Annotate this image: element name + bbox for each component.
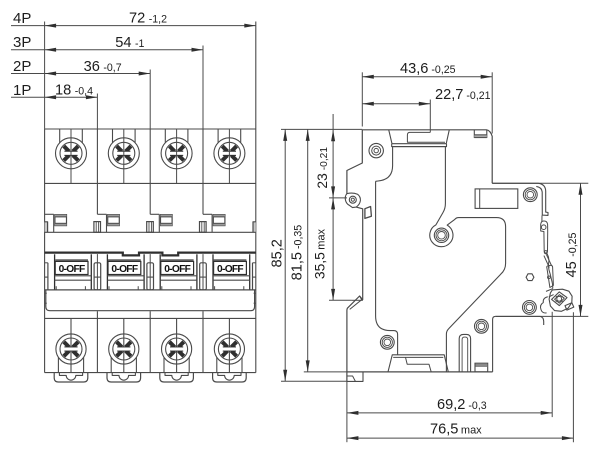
bottom extension lines — [304, 371, 347, 373]
svg-text:76,5max: 76,5max — [430, 421, 482, 437]
left end cap — [47, 263, 49, 290]
body bottom edge — [45, 372, 256, 374]
tilted flag tab — [365, 207, 372, 219]
pole 2 bottom terminal — [123, 318, 125, 372]
bottom slot — [459, 334, 470, 372]
svg-text:43,6-0,25: 43,6-0,25 — [400, 61, 456, 77]
recess inner ledge — [407, 132, 445, 142]
pole 4 switch handle O-OFF — [212, 254, 214, 290]
svg-text:22,7-0,21: 22,7-0,21 — [435, 87, 491, 103]
bottom edge of side body — [347, 371, 493, 373]
horizontal separator below top terminals — [45, 182, 256, 184]
pole 1 bottom terminal — [70, 318, 72, 372]
dimension 85,2 (left) — [284, 129, 286, 381]
spring arm lower — [547, 265, 554, 287]
svg-text:0-OFF: 0-OFF — [59, 264, 85, 275]
left edge notch — [45, 222, 48, 233]
rivets (concentric circles) — [523, 188, 537, 202]
centre rivet — [434, 228, 448, 242]
divider bars in switch row — [96, 254, 98, 290]
pole 4 top tab — [203, 213, 212, 215]
svg-text:54-1: 54-1 — [115, 35, 144, 51]
dimension 1P 18 -0,4 — [11, 96, 97, 98]
pole 3 mounting foot — [160, 373, 194, 382]
dimension 76,5 max — [347, 437, 574, 439]
pole 4 bottom terminal — [228, 318, 230, 372]
bottom latch trapezoid — [388, 355, 448, 372]
pole 3 switch handle O-OFF — [159, 254, 161, 290]
pole 3 top tab — [150, 213, 159, 215]
bottom front wedge — [347, 296, 363, 372]
left upper profile — [347, 130, 362, 194]
svg-text:23-0,21: 23-0,21 — [315, 147, 330, 189]
pole 2 top terminal — [112, 129, 114, 143]
top DIN claw — [492, 183, 548, 215]
svg-text:0-OFF: 0-OFF — [164, 264, 190, 275]
right end cap — [252, 263, 254, 290]
dimension 45 -0,25 — [492, 182, 588, 184]
pole 3 bottom terminal — [176, 318, 178, 372]
DIN window rectangle — [475, 189, 518, 209]
rear lower step — [495, 316, 543, 325]
right edge notch — [253, 222, 256, 233]
front view: 4-pole breaker outline — [44, 129, 46, 373]
pole 2 switch handle O-OFF — [106, 254, 108, 290]
extension lines for pitch dimensions — [44, 22, 46, 130]
top-right clip — [473, 130, 475, 138]
dimension 81,5 -0,35 — [307, 129, 309, 372]
top edge extension to the left — [281, 128, 362, 130]
svg-text:35,5max: 35,5max — [313, 228, 328, 279]
side body: top face — [362, 130, 492, 184]
pole 4 mounting foot — [213, 373, 247, 382]
spring link — [546, 254, 551, 266]
front latch with circle — [345, 193, 360, 208]
spring arm upper — [541, 221, 548, 254]
band bottom edge with centre notches — [45, 253, 256, 256]
clip fastener head — [549, 289, 572, 311]
svg-text:0-OFF: 0-OFF — [217, 264, 243, 275]
inner front wall — [376, 181, 398, 354]
pole 1 top terminal — [59, 129, 61, 143]
inner contour with lobe around centre rivet — [430, 147, 506, 372]
svg-text:45-0,25: 45-0,25 — [564, 232, 580, 277]
fastener stem — [546, 289, 553, 292]
dimension 22,7 -0,21 — [362, 103, 430, 105]
svg-text:1P: 1P — [13, 82, 31, 99]
pole 3 top terminal — [164, 129, 166, 143]
svg-text:69,2-0,3: 69,2-0,3 — [437, 397, 487, 413]
svg-text:2P: 2P — [13, 58, 31, 75]
pole 2 mounting foot — [107, 373, 141, 382]
dimension 3P 54 -1 — [11, 49, 203, 51]
front edge middle — [356, 207, 363, 300]
pole 4 top terminal — [217, 129, 219, 143]
dimension 43,6 -0,25 — [362, 76, 492, 78]
hexagon hole — [526, 274, 534, 281]
svg-text:85,2: 85,2 — [270, 239, 286, 267]
fastener tab — [565, 303, 574, 310]
dimension 35,5 max — [332, 198, 334, 301]
terminal screw circle (side) — [369, 143, 383, 157]
svg-text:3P: 3P — [13, 34, 31, 51]
front foot — [347, 372, 363, 381]
pole divider lines, upper part — [96, 129, 98, 214]
svg-text:4P: 4P — [13, 10, 31, 27]
divider clips — [94, 222, 101, 233]
dimension 23 -0,21 — [332, 114, 334, 198]
upper inner corner — [376, 147, 393, 182]
svg-text:72-1,2: 72-1,2 — [129, 11, 167, 27]
toggle recess trapezoid — [389, 130, 450, 144]
pole 1 top tab — [45, 213, 54, 215]
fastener curl — [540, 297, 547, 313]
svg-text:36-0,7: 36-0,7 — [84, 59, 122, 75]
dimension 2P 36 -0,7 — [11, 73, 150, 75]
pole divider lines, lower part — [96, 311, 98, 372]
lower cover bar — [46, 290, 255, 311]
hatched block — [475, 363, 488, 372]
line above bottom terminal section — [45, 317, 256, 319]
pole 2 top tab — [97, 213, 106, 215]
switch row bottom line — [45, 289, 256, 291]
clip housing wall — [541, 215, 543, 222]
pole 1 mounting foot — [54, 373, 88, 382]
dimension 4P 72 -1,2 — [11, 25, 256, 27]
band below recess — [392, 144, 447, 147]
dimension 69,2 -0,3 — [347, 412, 552, 414]
svg-text:18-0,4: 18-0,4 — [55, 83, 93, 99]
pole 1 switch handle O-OFF — [54, 254, 56, 290]
svg-text:81,5-0,35: 81,5-0,35 — [290, 225, 306, 281]
fastener diamond — [552, 292, 567, 306]
svg-text:0-OFF: 0-OFF — [111, 264, 137, 275]
band top edge — [45, 231, 256, 233]
